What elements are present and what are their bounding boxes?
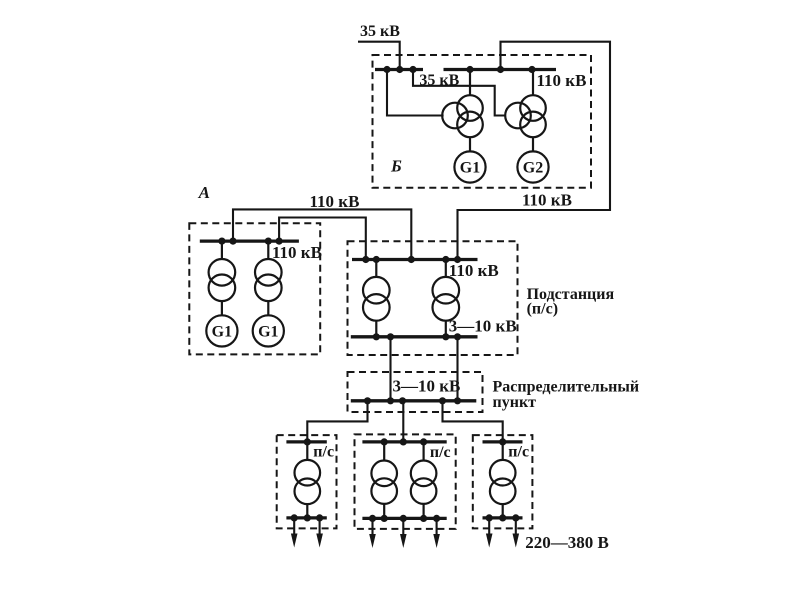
junction dot xyxy=(381,438,388,445)
junction dot xyxy=(400,515,407,522)
junction dot 3-10 kV bus xyxy=(373,333,380,340)
svg-text:п/с: п/с xyxy=(508,444,529,461)
outgoing feeder arrow xyxy=(486,518,493,548)
bus: left box lower busbar xyxy=(286,516,326,519)
station A dashed box xyxy=(189,223,320,354)
junction dot substation bus xyxy=(373,256,380,263)
wire: incoming 35 kV line xyxy=(358,42,400,70)
junction dot on 35 kV bus xyxy=(409,66,416,73)
transformer T2 (three-winding) xyxy=(505,95,546,137)
generator G1 (station Б) xyxy=(454,151,485,182)
transformer (station А left, two-winding) xyxy=(209,259,236,301)
junction dot 3-10 kV bus xyxy=(387,333,394,340)
svg-text:35 кВ: 35 кВ xyxy=(360,23,400,40)
transformer (substation left) xyxy=(363,277,390,321)
wire: substation bus to right transformer xyxy=(445,260,447,278)
wire: А bus to left transformer xyxy=(221,241,223,259)
wire: bus to transformer xyxy=(306,442,308,460)
junction dot xyxy=(304,438,311,445)
svg-text:А: А xyxy=(198,183,210,202)
feeder: РП to left distribution substation xyxy=(307,401,367,442)
wire: 35 kV bus branch to transformer T2 tertiary winding xyxy=(413,70,505,116)
bus: 110 kV busbar (station А) xyxy=(200,239,299,242)
svg-text:п/с: п/с xyxy=(430,444,451,461)
bus: substation 110 kV busbar xyxy=(352,258,478,261)
svg-text:110 кВ: 110 кВ xyxy=(522,191,572,210)
junction dot on А bus xyxy=(229,238,236,245)
wire: 35 kV bus to transformer T1 tertiary winding xyxy=(387,70,444,116)
wire: bus to right transformer xyxy=(423,442,425,461)
generator G2 (station Б) xyxy=(517,151,548,182)
feeder: substation to distribution point (left) xyxy=(389,337,391,401)
junction dot xyxy=(304,514,311,521)
wire: 110 kV line 2 from А to substation xyxy=(279,218,366,260)
junction dot substation bus xyxy=(362,256,369,263)
wire: left transformer to lower bus xyxy=(383,504,385,519)
junction dot on 35 kV bus xyxy=(396,66,403,73)
wire: 110 kV bus to transformer T2 xyxy=(532,70,534,96)
junction dot РП bus xyxy=(387,397,394,404)
junction dot РП bus xyxy=(454,397,461,404)
transformer (middle box left) xyxy=(371,461,397,504)
svg-text:110 кВ: 110 кВ xyxy=(537,71,587,90)
junction dot xyxy=(420,515,427,522)
junction dot on 35 kV bus xyxy=(383,66,390,73)
wire: transformer to lower bus xyxy=(502,504,504,518)
wire: left transformer to G1 xyxy=(221,301,223,315)
wire: left transformer to 3-10 kV bus xyxy=(375,321,377,337)
outgoing feeder arrow xyxy=(316,518,323,548)
bus: 110 kV busbar (station Б) xyxy=(444,68,557,71)
outgoing feeder arrow xyxy=(400,518,407,548)
feeder: РП to right distribution substation xyxy=(443,401,503,442)
transformer (left box) xyxy=(295,460,321,504)
junction dot xyxy=(512,514,519,521)
station B dashed box xyxy=(373,55,592,188)
transformer (station А right, two-winding) xyxy=(255,259,282,301)
bus: middle box upper busbar xyxy=(362,440,446,443)
junction dot 3-10 kV bus xyxy=(454,333,461,340)
junction dot xyxy=(369,515,376,522)
junction dot РП bus xyxy=(399,397,406,404)
svg-text:3—10 кВ: 3—10 кВ xyxy=(449,317,517,336)
junction dot xyxy=(381,515,388,522)
junction dot 3-10 kV bus xyxy=(442,333,449,340)
transformer (middle box right) xyxy=(411,461,437,504)
bus: substation 3-10 kV busbar xyxy=(351,335,478,338)
wire: transformer to lower bus xyxy=(306,504,308,518)
svg-text:110 кВ: 110 кВ xyxy=(272,243,322,262)
svg-text:35 кВ: 35 кВ xyxy=(419,72,459,89)
bus: 35 kV busbar (station Б) xyxy=(375,68,423,71)
junction dot xyxy=(420,438,427,445)
left distribution substation dashed box xyxy=(277,435,337,528)
junction dot on А bus xyxy=(218,238,225,245)
junction dot xyxy=(499,438,506,445)
junction dot on 110 kV bus xyxy=(528,66,535,73)
bus: distribution point busbar xyxy=(351,399,477,402)
svg-text:220—380 В: 220—380 В xyxy=(525,533,609,552)
svg-text:Распределительный: Распределительный xyxy=(493,379,640,396)
transformer (substation right) xyxy=(433,277,460,321)
bus: middle box lower busbar xyxy=(362,517,446,520)
right distribution substation dashed box xyxy=(473,435,533,528)
svg-text:G1: G1 xyxy=(258,324,278,341)
outgoing feeder arrow xyxy=(513,518,520,548)
junction dot on 110 kV bus xyxy=(466,66,473,73)
junction dot xyxy=(433,515,440,522)
junction dot on 110 kV bus xyxy=(497,66,504,73)
svg-text:G1: G1 xyxy=(212,324,232,341)
wire: bus to left transformer xyxy=(383,442,385,461)
svg-text:3—10 кВ: 3—10 кВ xyxy=(393,377,461,396)
bus: left box upper busbar xyxy=(286,440,326,443)
middle distribution substation dashed box xyxy=(355,434,456,529)
transformer T1 (three-winding) xyxy=(442,95,483,137)
svg-text:пункт: пункт xyxy=(493,394,537,411)
generator G1 (station А right) xyxy=(253,315,284,346)
junction dot xyxy=(316,514,323,521)
wire: T1 to generator G1 xyxy=(469,137,471,151)
wire: substation bus to left transformer xyxy=(375,260,377,278)
junction dot xyxy=(400,438,407,445)
wire: T2 to generator G2 xyxy=(532,137,534,151)
svg-text:G2: G2 xyxy=(523,160,543,177)
wire: 110 kV line 1 from А to substation xyxy=(233,209,411,259)
junction dot РП bus xyxy=(364,397,371,404)
transformer (right box) xyxy=(490,460,516,504)
wire: bus to transformer xyxy=(502,442,504,460)
wire: А bus to right transformer xyxy=(267,241,269,259)
junction dot substation bus xyxy=(442,256,449,263)
svg-text:(п/с): (п/с) xyxy=(527,301,558,318)
junction dot substation bus xyxy=(408,256,415,263)
junction dot РП bus xyxy=(439,397,446,404)
wire: 110 kV bus to transformer T1 xyxy=(469,70,471,96)
svg-text:G1: G1 xyxy=(460,160,480,177)
svg-text:п/с: п/с xyxy=(313,444,334,461)
junction dot on А bus xyxy=(265,238,272,245)
distribution point dashed box xyxy=(348,372,483,412)
junction dot on А bus xyxy=(276,238,283,245)
svg-text:Б: Б xyxy=(390,157,402,176)
feeder: РП to middle distribution substation xyxy=(402,401,404,442)
outgoing feeder arrow xyxy=(291,518,298,548)
bus: right box lower busbar xyxy=(483,516,523,519)
junction dot xyxy=(499,514,506,521)
substation (п/с) dashed box xyxy=(348,241,518,355)
wire: 110 kV transmission line from Б to substation xyxy=(458,42,611,260)
junction dot xyxy=(486,514,493,521)
feeder: substation to distribution point (right) xyxy=(456,337,458,401)
generator G1 (station А left) xyxy=(206,315,237,346)
outgoing feeder arrow xyxy=(433,518,440,548)
svg-text:110 кВ: 110 кВ xyxy=(310,192,360,211)
wire: right transformer to 3-10 kV bus xyxy=(445,321,447,337)
bus: right box upper busbar xyxy=(483,440,523,443)
outgoing feeder arrow xyxy=(369,518,376,548)
wire: right transformer to lower bus xyxy=(423,504,425,519)
svg-text:110 кВ: 110 кВ xyxy=(449,261,499,280)
junction dot substation bus xyxy=(454,256,461,263)
junction dot xyxy=(291,514,298,521)
wire: right transformer to G1 xyxy=(267,301,269,315)
